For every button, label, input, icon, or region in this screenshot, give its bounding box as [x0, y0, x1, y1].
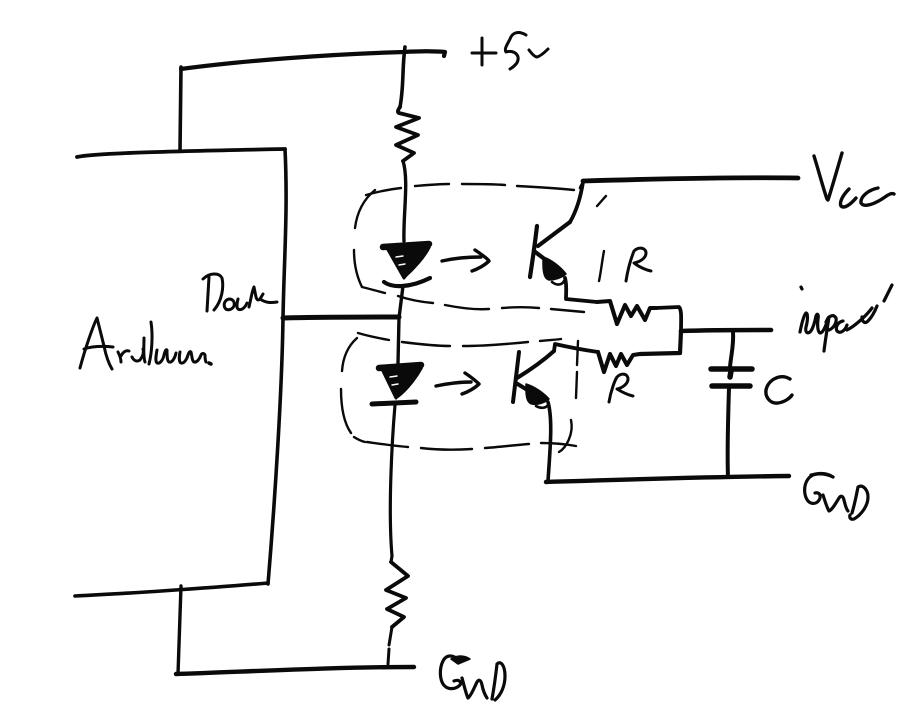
wire GND right [546, 476, 789, 482]
wire K2 collector lead [554, 344, 598, 352]
resistor R1 [597, 301, 656, 324]
label R1 [626, 248, 651, 281]
wire rail below LED2 [390, 405, 395, 562]
wire output node to input [681, 330, 771, 331]
label +5v [472, 32, 548, 69]
label Dout [203, 274, 277, 311]
capacitor C1 bottom lead [728, 388, 729, 477]
wire R1 to node [656, 307, 681, 331]
wire rail Dout node to LED2 [398, 318, 399, 363]
arrow light 2 [436, 373, 479, 394]
label input [800, 285, 892, 351]
wire Vcc [583, 178, 798, 181]
resistor R3 series top [396, 107, 419, 161]
LED D1 [383, 244, 430, 286]
label R2 [609, 374, 633, 402]
wire rail to LED1 [403, 161, 406, 241]
optocoupler U2 dashed enclosure [341, 333, 578, 452]
Arduino box right edge [268, 149, 286, 584]
wire Arduino GND step [178, 586, 181, 674]
wire +5V top feed [180, 51, 445, 151]
resistor R2 [598, 352, 640, 372]
wire resistor R4 to GND [388, 627, 392, 664]
transistor K1 [530, 222, 570, 285]
wire K1 collector to Vcc corner [570, 182, 583, 222]
label C [766, 377, 792, 403]
arrow light 1 [442, 250, 489, 271]
label Arduino [80, 318, 211, 369]
wire Dout to LED rail [283, 317, 399, 318]
Arduino box bottom edge [75, 583, 268, 596]
wire R2 to node [640, 331, 681, 354]
capacitor C1 top plate [711, 369, 752, 377]
capacitor C1 top lead [730, 332, 733, 367]
LED D2 [372, 365, 421, 404]
label GND bottom [440, 656, 505, 700]
transistor K2 [513, 351, 554, 408]
capacitor C1 bottom plate [712, 383, 750, 389]
Arduino box top edge [77, 149, 285, 157]
optocoupler U1 dashed enclosure [354, 184, 606, 312]
wire K1 emitter lead [565, 278, 597, 302]
resistor R4 bottom [386, 562, 408, 627]
wire bottom GND [176, 667, 414, 674]
label GND right [805, 473, 868, 519]
wire rail LED1 to Dout node [399, 286, 403, 318]
wire +5V rail upper [400, 47, 405, 107]
wire K2 emitter lead to GND [548, 402, 551, 481]
label Vcc [814, 153, 894, 207]
